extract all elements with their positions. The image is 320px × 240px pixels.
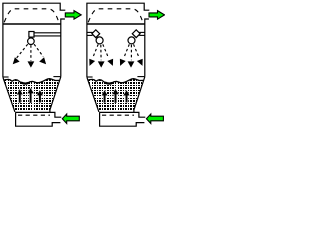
left tower top divider — [3, 23, 61, 25]
right nozzle 2 arrowheads — [120, 59, 126, 66]
right tower dashed gas path — [88, 9, 143, 22]
left tower shell — [3, 3, 65, 77]
left packing support ticks — [3, 76, 9, 78]
left spray arrowheads — [13, 57, 20, 64]
right nozzle 1 dashed jets — [93, 44, 109, 60]
right nozzle 2 tip — [128, 37, 135, 44]
right bed wavy surface — [88, 79, 143, 84]
left inlet green arrow — [62, 114, 79, 124]
right bed surface thick dip — [105, 83, 112, 84]
left funnel walls — [3, 77, 15, 112]
right spray pipe stub right — [139, 31, 145, 33]
left spray pipe — [34, 32, 61, 34]
right nozzle 2 dashed jets — [124, 44, 139, 60]
right nozzle 1 body diamond — [92, 30, 100, 38]
left gas up-arrows — [16, 88, 24, 103]
right nozzle 1 arrowheads — [89, 59, 95, 66]
right packed bed stipple — [86, 79, 148, 112]
right liquid level dashed — [102, 114, 134, 116]
left spray nozzle body — [29, 32, 34, 38]
right tower top divider — [87, 23, 145, 25]
left spray dashed jets — [17, 44, 44, 61]
right funnel walls — [87, 77, 99, 112]
right packing support ticks — [87, 76, 93, 78]
left bed wavy surface — [4, 79, 59, 84]
right tower shell — [87, 3, 149, 77]
left sump box — [15, 112, 61, 126]
right sump box — [99, 112, 145, 126]
right spray pipe stub left — [88, 31, 93, 33]
left tower dashed gas path — [4, 9, 59, 22]
left outlet green arrow — [65, 11, 81, 20]
left packed bed stipple — [2, 79, 61, 112]
right nozzle 1 tip — [96, 37, 103, 44]
left liquid level dashed — [18, 114, 50, 116]
right nozzle 2 body diamond — [132, 30, 140, 38]
right inlet green arrow — [146, 114, 163, 124]
right gas up-arrows — [101, 89, 109, 103]
left spray nozzle tip — [28, 38, 35, 45]
right outlet green arrow — [149, 11, 165, 20]
left bed surface thick dip — [21, 83, 28, 84]
